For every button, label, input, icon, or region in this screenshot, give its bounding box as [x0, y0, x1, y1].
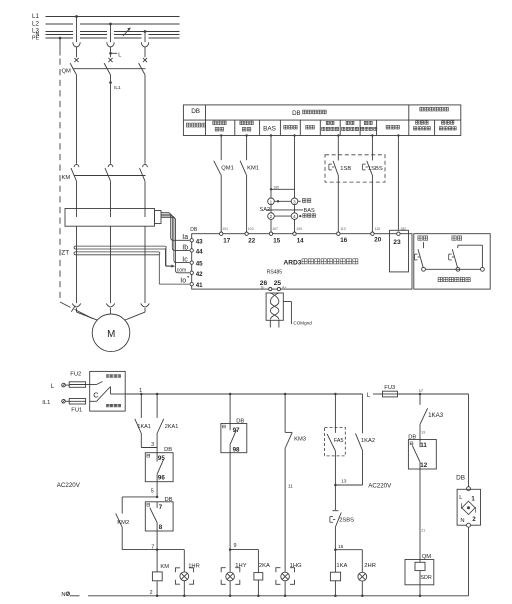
svg-text:BAS: BAS — [263, 126, 276, 133]
contact KM3 — [284, 393, 292, 572]
svg-text:FU3: FU3 — [384, 385, 395, 391]
svg-text:22: 22 — [248, 238, 255, 245]
disconnect x mark — [143, 58, 147, 62]
wire ZT lead to Io* — [159, 255, 189, 284]
bus line PE — [46, 37, 180, 39]
contact 2KA1 — [157, 394, 164, 453]
svg-text:QM: QM — [422, 554, 432, 560]
breaker QM (3-pole) — [70, 63, 145, 164]
svg-text:1KA2: 1KA2 — [361, 438, 375, 444]
node 7 — [151, 544, 158, 551]
label Io* — [180, 276, 189, 284]
selector SA2 — [268, 136, 302, 233]
svg-text:KM2: KM2 — [117, 520, 129, 526]
node L control tap — [109, 52, 117, 55]
svg-text:DB: DB — [292, 110, 301, 117]
svg-text:45: 45 — [196, 261, 203, 268]
svg-text:103: 103 — [248, 227, 254, 231]
svg-text:FU1: FU1 — [71, 407, 82, 413]
wire — [76, 17, 78, 43]
svg-text:COMgnd: COMgnd — [293, 320, 312, 325]
svg-text:17: 17 — [223, 238, 230, 245]
table bottom junction dots — [220, 134, 400, 136]
wire 103 — [246, 136, 248, 233]
svg-text:Ic: Ic — [182, 257, 188, 264]
bus line N — [46, 34, 180, 36]
svg-text:FU2: FU2 — [70, 372, 81, 378]
drawout contact (phase 2) — [107, 42, 114, 47]
contact 11-12 — [412, 440, 420, 560]
contact 1KA1 — [135, 394, 157, 448]
svg-text:DB: DB — [165, 497, 173, 503]
rail junction dots — [183, 595, 421, 598]
wire — [110, 47, 112, 57]
control source L — [51, 383, 69, 390]
svg-text:IL1: IL1 — [42, 400, 50, 406]
bus labels L1 L2 L3 N PE — [32, 13, 40, 42]
node 5 — [151, 489, 159, 498]
svg-text:DB: DB — [190, 227, 198, 233]
table cell: control room — [284, 125, 297, 129]
pushbutton stop — [449, 245, 485, 271]
pushbutton 2SBS — [330, 485, 341, 550]
svg-text:com: com — [177, 268, 186, 274]
ZT primary thick leads — [74, 246, 166, 255]
changeover switch box C — [90, 371, 126, 411]
contact FA5 (thermal) — [325, 393, 346, 485]
table cell: common — [386, 125, 399, 129]
wire — [110, 24, 112, 42]
node phase tap L2 — [109, 23, 112, 26]
table header: DB switch-signal input — [292, 110, 326, 117]
wire 115 — [371, 136, 373, 233]
table cell: room stop button — [414, 121, 431, 130]
lamp 2HR — [335, 550, 366, 596]
contact KM1 — [240, 161, 246, 175]
fuse FU1 — [69, 399, 85, 405]
DB output 95-96 box — [145, 453, 173, 482]
pushbutton 1SB — [329, 161, 338, 175]
svg-text:95: 95 — [158, 455, 165, 462]
twisted pair to BAS — [266, 293, 283, 328]
svg-text:15: 15 — [338, 544, 344, 549]
svg-text:98: 98 — [233, 446, 240, 453]
pushbutton 1SBS — [363, 161, 373, 175]
drawout contact (phase 3) — [141, 42, 148, 47]
svg-text:DB: DB — [236, 419, 244, 425]
table cell: DB / current input — [186, 108, 205, 127]
svg-text:B-: B- — [261, 285, 264, 289]
terminals 17 22 15 14 16 20 23 — [220, 232, 401, 246]
svg-text:QM: QM — [62, 69, 72, 75]
cable marker arcs — [72, 304, 149, 307]
wire 113 — [337, 136, 339, 233]
node 9 — [229, 543, 237, 551]
DB signal table frame — [183, 105, 460, 136]
svg-text:N: N — [460, 518, 464, 524]
svg-text:2SBS: 2SBS — [339, 517, 354, 523]
drawout contact (phase 1) — [73, 42, 80, 47]
svg-text:2HR: 2HR — [364, 563, 376, 569]
svg-text:2KA1: 2KA1 — [165, 424, 178, 430]
disconnect x mark — [74, 58, 78, 62]
svg-text:AC220V: AC220V — [368, 483, 392, 490]
svg-text:1KA1: 1KA1 — [137, 424, 150, 430]
svg-text:1SB: 1SB — [340, 166, 351, 172]
svg-text:1KA: 1KA — [336, 563, 347, 569]
svg-text:SDR: SDR — [420, 575, 431, 581]
svg-text:C: C — [93, 390, 99, 399]
svg-text:13: 13 — [341, 479, 347, 484]
svg-text:KM3: KM3 — [294, 437, 306, 443]
svg-text:DB: DB — [456, 475, 465, 482]
motor M — [92, 314, 130, 352]
fuse FU3 — [383, 391, 469, 397]
table cell: local start — [322, 121, 339, 130]
wire 102 (common) — [397, 136, 399, 231]
svg-text:N: N — [61, 592, 65, 598]
svg-text:KM: KM — [62, 175, 71, 181]
coil 1KA — [330, 550, 340, 596]
soft starter QM box with SDR — [405, 560, 434, 596]
table cell: remote stop feedback — [361, 121, 377, 130]
svg-text:PE: PE — [32, 36, 40, 42]
lamp 1HY — [221, 550, 240, 596]
wire L rail (left) — [125, 393, 362, 395]
svg-text:1KA3: 1KA3 — [428, 412, 444, 419]
wire KM2 branch — [122, 497, 157, 550]
svg-text:12: 12 — [420, 462, 427, 469]
svg-text:KM1: KM1 — [247, 165, 259, 171]
svg-text:44: 44 — [196, 248, 203, 255]
bus line L1 — [46, 16, 180, 18]
control source IL1 — [42, 400, 69, 406]
svg-text:1SBS: 1SBS — [368, 166, 383, 172]
disconnect x mark — [108, 58, 112, 62]
label run — [418, 236, 428, 240]
svg-text:185: 185 — [273, 186, 279, 190]
contact 97-98 — [230, 424, 236, 550]
terminals 26 25 — [260, 280, 287, 291]
coil KM — [152, 550, 162, 596]
svg-text:21: 21 — [421, 529, 425, 533]
table cell: room start button — [439, 121, 456, 130]
svg-text:96: 96 — [158, 475, 165, 482]
terminal 23 box — [390, 230, 409, 272]
contact KM2 — [116, 513, 122, 526]
svg-text:11: 11 — [420, 442, 427, 449]
PE conductor (dashed) — [59, 37, 93, 319]
wire BAS position — [267, 209, 304, 211]
svg-text:115: 115 — [375, 227, 381, 231]
lamp 1HG — [276, 568, 295, 596]
svg-text:101: 101 — [222, 227, 228, 231]
svg-text:25: 25 — [274, 280, 282, 287]
svg-text:2KA: 2KA — [259, 563, 270, 569]
svg-text:8: 8 — [159, 524, 163, 531]
svg-text:109: 109 — [296, 227, 302, 231]
svg-text:RS485: RS485 — [267, 270, 283, 276]
left terminals 43 44 45 42 41 — [190, 238, 203, 289]
wire 101 — [220, 136, 222, 233]
contactor KM (3-pole) — [71, 165, 147, 209]
svg-text:Ib: Ib — [182, 244, 188, 251]
svg-text:Io: Io — [180, 277, 186, 284]
fuse FU2 — [69, 382, 90, 388]
svg-text:7: 7 — [159, 504, 163, 511]
breaker feed slash mark — [123, 28, 131, 36]
svg-text:ZT: ZT — [61, 250, 69, 257]
control source L (right) — [367, 393, 383, 399]
node phase tap L3 — [144, 30, 147, 33]
wire COMgnd — [283, 302, 291, 325]
svg-text:L2: L2 — [32, 20, 39, 27]
svg-text:14: 14 — [297, 238, 304, 245]
svg-text:19: 19 — [421, 431, 425, 435]
node 15 — [334, 544, 344, 551]
node IL1 tap — [109, 81, 112, 84]
table cell: local — [306, 125, 315, 129]
node phase tap L1 — [75, 15, 78, 18]
pushbutton run — [415, 242, 426, 271]
wire — [144, 47, 146, 57]
node 2 — [150, 590, 159, 597]
controller ARD3 box — [192, 234, 412, 289]
svg-text:41: 41 — [196, 282, 203, 289]
node 1 — [139, 388, 158, 395]
svg-text:M: M — [107, 329, 115, 340]
svg-text:9: 9 — [234, 543, 237, 549]
svg-text:113: 113 — [340, 227, 346, 231]
svg-text:IL1: IL1 — [114, 85, 121, 91]
wire (button common) — [425, 268, 480, 270]
wire (phases inside CT box) — [77, 209, 146, 218]
svg-text:DB: DB — [408, 435, 416, 441]
svg-text:ARD3: ARD3 — [284, 259, 302, 266]
wire number labels — [222, 227, 406, 231]
svg-text:5: 5 — [151, 489, 154, 495]
svg-text:2: 2 — [150, 590, 153, 596]
wire (cable into motor) — [77, 308, 146, 321]
svg-text:BAS: BAS — [304, 208, 315, 214]
table cell: breaker status — [213, 121, 226, 131]
label stop — [452, 236, 462, 240]
svg-text:DB: DB — [164, 447, 172, 453]
CT secondary wire bundle — [161, 213, 189, 273]
svg-text:17: 17 — [419, 388, 424, 393]
panel button circuit box — [414, 234, 490, 289]
DB output 7-8 box — [145, 502, 173, 531]
svg-text:Ia: Ia — [182, 234, 188, 241]
node 17 — [419, 388, 424, 395]
label ARD3 title — [284, 259, 358, 267]
label local (jiudi) — [302, 199, 311, 203]
DB output 97-98 box — [221, 393, 247, 453]
DB power supply branch — [456, 394, 468, 487]
contact 7-8 — [150, 502, 158, 550]
DB output 11-12 box — [408, 440, 436, 470]
table header: panel control loop — [420, 107, 449, 111]
svg-text:L1: L1 — [32, 13, 39, 20]
svg-text:23: 23 — [393, 239, 401, 246]
svg-text:AC220V: AC220V — [57, 482, 81, 489]
node 13 — [334, 479, 347, 487]
svg-text:L: L — [118, 53, 121, 59]
label panel button circuit — [438, 277, 470, 281]
local pushbutton dashed box — [325, 155, 385, 182]
wire — [144, 32, 146, 43]
svg-text:15: 15 — [273, 238, 280, 245]
bus line L3 — [46, 31, 180, 33]
svg-text:A+: A+ — [282, 285, 286, 289]
table cell: local stop — [342, 121, 359, 130]
wire (motor cables) — [77, 226, 146, 303]
contact 1KA3 — [420, 394, 428, 440]
svg-text:107: 107 — [272, 227, 278, 231]
svg-text:16: 16 — [340, 237, 347, 244]
svg-text:KM: KM — [160, 564, 169, 570]
svg-text:20: 20 — [374, 236, 381, 243]
svg-text:43: 43 — [196, 238, 203, 245]
contact 1KA2 — [335, 394, 362, 485]
DB power supply box L1N2 — [457, 487, 480, 596]
wire ZT lead to com — [166, 249, 175, 268]
wire — [76, 47, 78, 57]
svg-text:DB: DB — [191, 108, 200, 115]
svg-text:1HR: 1HR — [188, 564, 200, 570]
lamp 1HR — [157, 550, 194, 596]
table cell: contactor status — [240, 121, 253, 131]
bus line L2 — [46, 23, 180, 25]
svg-text:11: 11 — [288, 484, 293, 489]
coil 2KA — [230, 550, 263, 596]
svg-text:42: 42 — [196, 271, 203, 278]
contact QM1 — [214, 161, 221, 175]
current transformer assembly box — [65, 209, 161, 227]
svg-text:FA5: FA5 — [334, 438, 344, 444]
contact 95-96 — [157, 453, 163, 497]
svg-text:1HG: 1HG — [290, 563, 302, 569]
svg-text:QM1: QM1 — [221, 165, 234, 171]
svg-text:7: 7 — [151, 544, 154, 550]
neutral rail N — [61, 592, 468, 598]
svg-text:1HY: 1HY — [235, 563, 246, 569]
label control room — [303, 214, 316, 217]
svg-text:3: 3 — [151, 442, 154, 448]
